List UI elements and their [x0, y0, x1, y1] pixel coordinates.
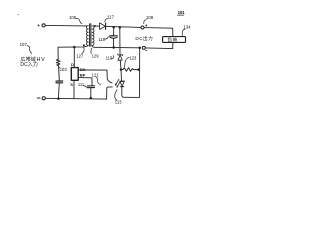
optocoupler light arrows	[115, 79, 120, 87]
svg-text:105: 105	[69, 15, 77, 20]
label 127 leader	[82, 47, 84, 54]
bypass capacitor 111 plates	[87, 85, 94, 87]
label 129 leader	[91, 48, 92, 54]
svg-text:101: 101	[178, 10, 186, 15]
svg-text:123: 123	[129, 56, 137, 61]
svg-text:113: 113	[115, 100, 122, 105]
zener diode 115 chain	[118, 27, 123, 69]
wire: BP pin to bypass capacitor	[78, 78, 92, 86]
node: - input terminal	[37, 97, 45, 100]
junction dot clamp cap	[57, 97, 60, 100]
wire: clamp cap to bottom rail	[57, 83, 60, 99]
wire: top input rail to transformer primary	[45, 24, 86, 27]
svg-text:DC入力: DC入力	[20, 61, 38, 68]
svg-text:+: +	[37, 24, 40, 29]
label 115 leader	[111, 56, 114, 59]
svg-text:129: 129	[92, 54, 100, 59]
figure label 101	[178, 10, 186, 15]
wire: primary return rail	[58, 47, 85, 60]
junction dot resistor right	[137, 68, 140, 71]
wire: bypass cap to bottom rail	[90, 88, 92, 98]
svg-text:S: S	[70, 82, 73, 87]
IC U1 switcher block	[71, 68, 78, 81]
svg-text:134: 134	[183, 25, 191, 30]
phase dot primary	[83, 44, 85, 46]
junction dot cap bottom	[112, 46, 115, 49]
diode 117 (output rectifier)	[95, 23, 106, 30]
svg-text:D: D	[71, 62, 74, 67]
wire: secondary return rail	[94, 46, 140, 49]
label 123 leader	[125, 57, 129, 67]
node: + output terminal	[141, 25, 147, 30]
svg-text:127: 127	[76, 53, 84, 58]
label 107 leader	[27, 46, 32, 54]
svg-text:109: 109	[146, 15, 154, 20]
label 134 leader	[182, 29, 185, 36]
output capacitor 119	[110, 27, 118, 47]
capacitor (clamp) plates	[56, 80, 63, 82]
junction dot zener-resistor	[120, 68, 123, 71]
load box 134	[163, 37, 186, 43]
junction dot zener branch	[119, 26, 122, 29]
resistor 123 (parallel)	[121, 68, 139, 72]
label 119 leader	[105, 37, 109, 40]
wire: output + to load	[144, 28, 173, 37]
phase dot secondary	[94, 25, 96, 27]
label 105 leader	[76, 19, 82, 24]
text: input legend 広帯域HV DC入力	[20, 56, 45, 68]
label 113 leader	[115, 90, 117, 100]
label 103 leader	[58, 66, 60, 68]
transformer core	[90, 24, 91, 47]
optocoupler LED 113	[120, 48, 140, 98]
junction dot D-pin	[73, 46, 76, 49]
svg-text:115: 115	[106, 56, 113, 61]
svg-text:BP: BP	[80, 73, 86, 78]
resistor 103 (clamp)	[56, 59, 60, 81]
wire: bottom input rail	[45, 97, 106, 100]
wire: source pin to bottom rail	[73, 80, 75, 98]
node: + input terminal	[37, 24, 45, 29]
svg-text:119: 119	[98, 37, 105, 42]
svg-text:103: 103	[60, 67, 68, 72]
label 121 leader	[96, 77, 101, 85]
svg-text:107: 107	[20, 42, 28, 47]
transformer secondary winding	[92, 26, 95, 48]
junction dot output cap	[112, 26, 115, 29]
label 111 leader	[83, 86, 86, 88]
label 117 leader	[105, 19, 108, 22]
node: - output terminal	[142, 46, 147, 50]
wire: drain pin down to IC	[73, 47, 75, 67]
junction dot bypass cap	[90, 97, 93, 100]
wire: bottom rail up to opto emitter	[107, 87, 113, 99]
junction dot return branch	[138, 47, 141, 50]
wire: secondary top rail to output	[106, 26, 141, 27]
svg-text:負荷: 負荷	[168, 37, 178, 44]
svg-text:117: 117	[107, 14, 114, 19]
label 109 leader	[144, 20, 147, 24]
wire: EN feedback to optocoupler collector	[78, 70, 112, 83]
svg-text:121: 121	[92, 72, 100, 77]
svg-text:DC出力: DC出力	[135, 35, 153, 42]
svg-text:111: 111	[78, 82, 85, 87]
wire: output - to load	[145, 42, 173, 48]
transformer T 105 primary winding	[85, 26, 88, 47]
